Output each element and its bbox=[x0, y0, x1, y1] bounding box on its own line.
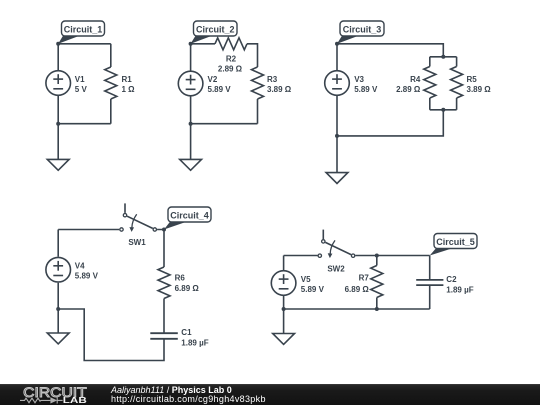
svg-text:SW1: SW1 bbox=[128, 238, 146, 247]
CircuitLab logo bbox=[0, 384, 100, 405]
label V2 value bbox=[208, 75, 232, 94]
svg-text:Circuit_1: Circuit_1 bbox=[64, 24, 103, 34]
svg-text:5.89 V: 5.89 V bbox=[354, 85, 378, 94]
wire V4 bottom lead bbox=[57, 283, 59, 309]
svg-text:R5: R5 bbox=[467, 75, 478, 84]
junction node circuit 2 bottom bbox=[189, 122, 193, 126]
svg-text:5 V: 5 V bbox=[75, 85, 88, 94]
footer credit text bbox=[111, 386, 266, 405]
label V1 value bbox=[75, 75, 88, 94]
wire parallel top bar bbox=[430, 56, 457, 58]
svg-text:V2: V2 bbox=[208, 75, 218, 84]
wire C1 bottom to ground bus bbox=[58, 309, 164, 361]
switch SW1 bbox=[120, 203, 157, 232]
svg-text:Circuit_3: Circuit_3 bbox=[343, 24, 382, 34]
wire parallel bottom bar bbox=[430, 109, 457, 111]
junction node circuit 4 top bbox=[162, 228, 166, 232]
wire ground lead circuit 3 bbox=[336, 136, 338, 173]
footer bar bbox=[0, 384, 540, 405]
svg-text:5.89 V: 5.89 V bbox=[208, 85, 232, 94]
wire V2 top lead bbox=[190, 44, 192, 71]
junction node R7 top bbox=[375, 254, 379, 258]
wire top rail circuit 5 bbox=[284, 255, 318, 257]
node Circuit_1 label bbox=[58, 21, 104, 44]
wire V2 bottom lead bbox=[190, 97, 192, 124]
resistor R6 bbox=[158, 267, 170, 333]
svg-text:6.89 Ω: 6.89 Ω bbox=[345, 285, 370, 294]
resistor R4 bbox=[424, 57, 436, 110]
ground circuit 5 bbox=[273, 334, 295, 345]
wire ground lead circuit 4 bbox=[57, 309, 59, 333]
junction node circuit 5 bottom bbox=[282, 307, 286, 311]
junction node circuit 1 top bbox=[56, 42, 60, 46]
ground circuit 1 bbox=[47, 159, 69, 170]
svg-text:V4: V4 bbox=[75, 262, 85, 271]
wire V3 bottom lead bbox=[336, 96, 338, 136]
wire bottom rail circuit 1 bbox=[58, 123, 111, 125]
label R5 value bbox=[467, 75, 492, 94]
svg-text:3.89 Ω: 3.89 Ω bbox=[267, 85, 292, 94]
label SW2 bbox=[327, 264, 345, 273]
wire C2 top lead bbox=[429, 256, 431, 280]
svg-text:C2: C2 bbox=[446, 275, 457, 284]
svg-text:5.89 V: 5.89 V bbox=[75, 272, 99, 281]
wire right drop circuit 3 bbox=[337, 110, 443, 136]
resistor R1 bbox=[105, 44, 117, 124]
voltage source V1 bbox=[46, 71, 71, 96]
svg-text:SW2: SW2 bbox=[327, 264, 345, 273]
voltage source V2 bbox=[178, 71, 203, 96]
label SW1 bbox=[128, 238, 146, 247]
svg-text:Circuit_2: Circuit_2 bbox=[196, 24, 235, 34]
svg-text:6.89 Ω: 6.89 Ω bbox=[175, 284, 200, 293]
label R2 value bbox=[218, 54, 243, 73]
node Circuit_5 label bbox=[430, 234, 477, 256]
svg-text:V3: V3 bbox=[354, 75, 364, 84]
svg-text:R4: R4 bbox=[410, 75, 421, 84]
wire V4 top lead bbox=[57, 230, 59, 257]
svg-text:V5: V5 bbox=[301, 275, 311, 284]
wire V1 top lead bbox=[57, 44, 59, 70]
svg-text:R6: R6 bbox=[175, 273, 186, 282]
svg-text:1 Ω: 1 Ω bbox=[122, 85, 136, 94]
label V4 value bbox=[75, 262, 99, 281]
wire ground lead circuit 2 bbox=[190, 124, 192, 160]
junction node circuit 3 top bbox=[335, 42, 339, 46]
wire bottom rail circuit 5 bbox=[284, 308, 430, 310]
voltage source V3 bbox=[325, 71, 350, 96]
svg-text:Circuit_5: Circuit_5 bbox=[436, 237, 475, 247]
junction node circuit 2 top bbox=[189, 42, 193, 46]
node Circuit_4 label bbox=[164, 207, 211, 230]
ground circuit 4 bbox=[47, 333, 69, 344]
wire top rail circuit 4 bbox=[58, 229, 119, 231]
wire V5 top lead bbox=[283, 256, 285, 271]
label R7 value bbox=[345, 274, 370, 294]
svg-text:3.89 Ω: 3.89 Ω bbox=[467, 85, 492, 94]
switch SW2 bbox=[318, 230, 355, 259]
wire SW2 to corner bbox=[355, 255, 429, 257]
wire top rail circuit 3 bbox=[337, 44, 443, 57]
wire V1 bottom lead bbox=[57, 96, 59, 124]
svg-text:LAB: LAB bbox=[63, 396, 87, 405]
wire SW1 to R6 bbox=[157, 230, 164, 268]
junction node circuit 1 bottom bbox=[56, 122, 60, 126]
label V5 value bbox=[301, 275, 325, 294]
svg-text:R7: R7 bbox=[359, 274, 370, 283]
svg-text:1.89 µF: 1.89 µF bbox=[181, 338, 208, 347]
svg-text:2.89 Ω: 2.89 Ω bbox=[218, 64, 243, 73]
resistor R2 bbox=[215, 38, 247, 50]
wire C2 bottom lead bbox=[429, 285, 431, 309]
svg-text:R1: R1 bbox=[122, 75, 133, 84]
junction node R7 bottom bbox=[375, 307, 379, 311]
capacitor C2 bbox=[416, 280, 443, 285]
node Circuit_2 label bbox=[191, 21, 237, 44]
wire ground lead circuit 1 bbox=[57, 124, 59, 160]
svg-text:2.89 Ω: 2.89 Ω bbox=[396, 85, 421, 94]
svg-text:R2: R2 bbox=[226, 54, 237, 63]
wire V3 top lead bbox=[336, 44, 338, 70]
label R1 value bbox=[122, 75, 136, 94]
junction node parallel bottom bbox=[441, 108, 445, 112]
resistor R7 bbox=[371, 256, 383, 310]
label R6 value bbox=[175, 273, 200, 293]
svg-text:C1: C1 bbox=[181, 328, 192, 337]
label C2 value bbox=[446, 275, 473, 294]
wire bottom rail circuit 2 bbox=[191, 123, 258, 125]
svg-text:Circuit_4: Circuit_4 bbox=[170, 210, 209, 220]
wire R2 to corner bbox=[247, 44, 258, 67]
label V3 value bbox=[354, 75, 378, 94]
node Circuit_3 label bbox=[337, 21, 384, 44]
label R3 value bbox=[267, 75, 292, 94]
capacitor C1 bbox=[150, 333, 178, 339]
voltage source V5 bbox=[271, 271, 296, 296]
svg-text:R3: R3 bbox=[267, 75, 278, 84]
voltage source V4 bbox=[46, 257, 71, 282]
resistor R3 bbox=[252, 67, 264, 124]
wire ground lead circuit 5 bbox=[283, 309, 285, 334]
label C1 value bbox=[181, 328, 208, 348]
wire top-left circuit 2 bbox=[191, 43, 215, 45]
junction node parallel top bbox=[441, 55, 445, 59]
junction node circuit 3 bottom bbox=[335, 134, 339, 138]
wire V5 bottom lead bbox=[283, 296, 285, 309]
label R4 value bbox=[396, 75, 421, 94]
svg-text:1.89 µF: 1.89 µF bbox=[446, 285, 473, 294]
resistor R5 bbox=[451, 57, 463, 110]
svg-text:V1: V1 bbox=[75, 75, 85, 84]
ground circuit 2 bbox=[180, 159, 202, 170]
wire top rail circuit 1 bbox=[58, 43, 111, 45]
svg-text:5.89 V: 5.89 V bbox=[301, 285, 325, 294]
junction node circuit 4 bottom bbox=[56, 307, 60, 311]
ground circuit 3 bbox=[326, 173, 348, 184]
